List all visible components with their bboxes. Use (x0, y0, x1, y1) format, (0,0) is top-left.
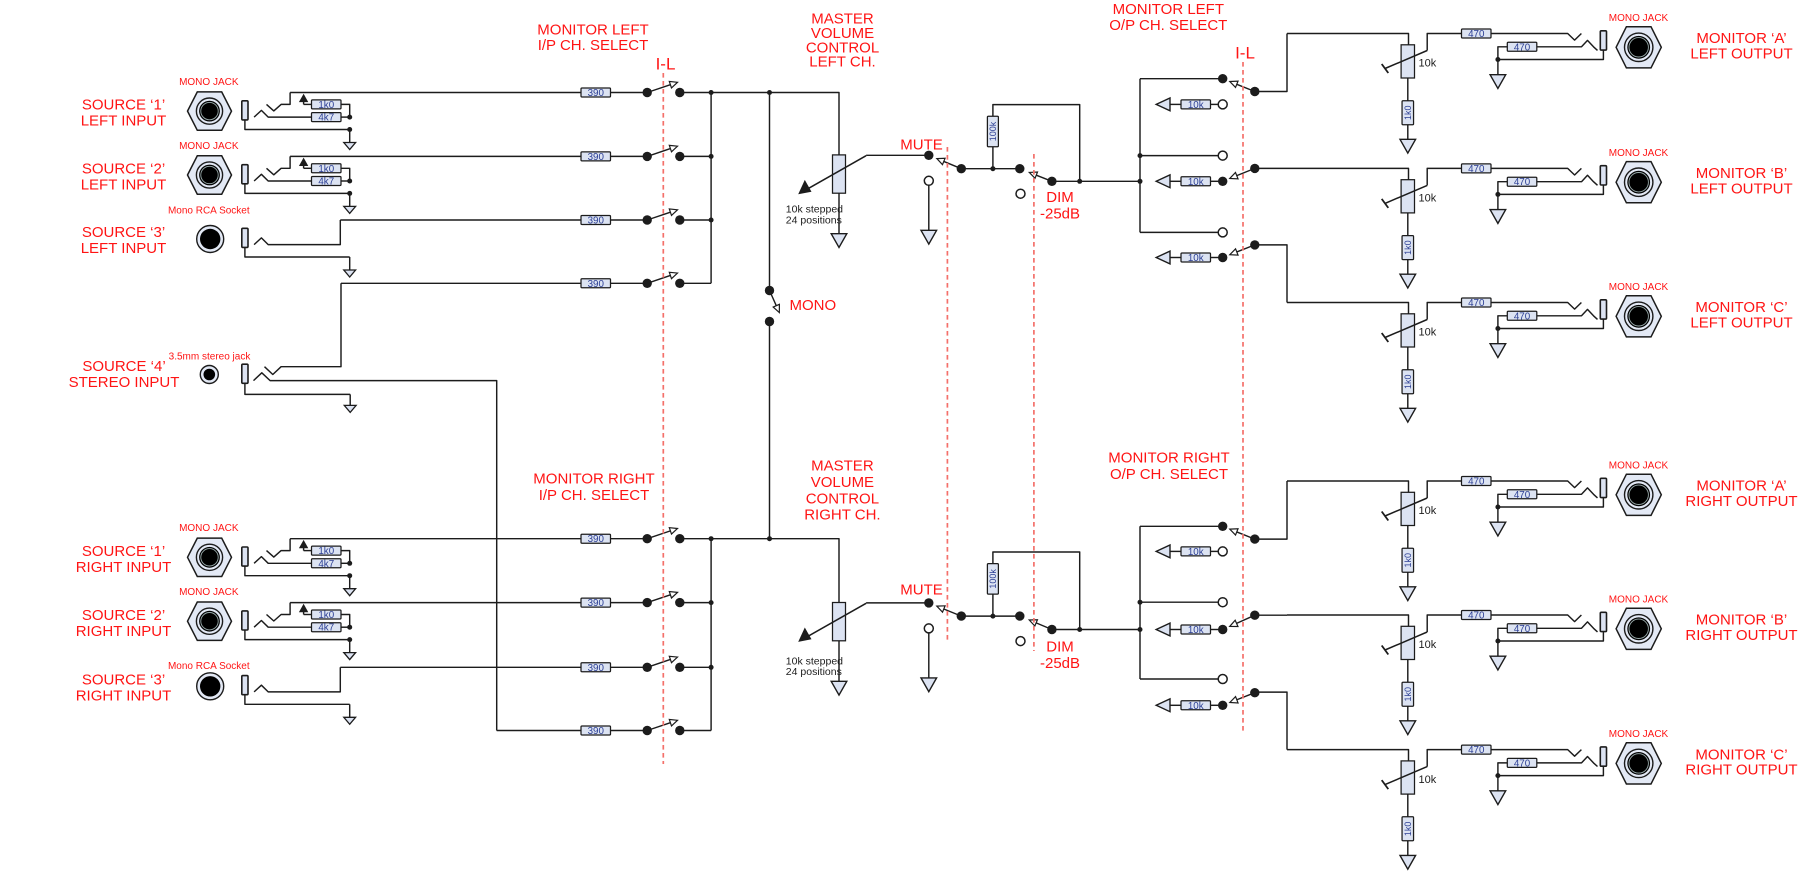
mute switch open contact (924, 624, 933, 633)
wire 470 to jack tip (1491, 750, 1581, 757)
resistor 470 shunt C (1507, 311, 1537, 322)
wire switch to bus (680, 730, 711, 732)
resistor 470 series C (1462, 745, 1492, 756)
node junction sleeve 2 right (347, 637, 352, 642)
resistor 10k monitor C (1181, 253, 1211, 264)
svg-text:MONITOR RIGHT: MONITOR RIGHT (533, 471, 654, 488)
svg-text:MONITOR RIGHT: MONITOR RIGHT (1108, 450, 1229, 467)
mono jack socket 1 left (188, 92, 232, 130)
wire monitor A right pole to network (1255, 481, 1287, 539)
node bus right row1 (709, 536, 714, 541)
resistor 1k0 2 left (312, 164, 342, 175)
rca socket 3 left (197, 226, 224, 253)
monitor C switch lever (1230, 245, 1255, 255)
wire switch to bus (680, 219, 711, 221)
svg-text:SOURCE ‘1’: SOURCE ‘1’ (82, 97, 165, 114)
monitor C switch 10k contact (1218, 253, 1227, 262)
switch contact out source 4 right (675, 726, 684, 735)
svg-text:LEFT OUTPUT: LEFT OUTPUT (1690, 46, 1792, 63)
wire trimmer wiper tap (1427, 615, 1461, 632)
node 100k bottom (990, 166, 995, 171)
svg-text:1k0: 1k0 (318, 100, 334, 111)
net arrow monitor A 10k (1156, 545, 1170, 558)
wire (1170, 550, 1181, 552)
svg-text:10k: 10k (1419, 193, 1437, 205)
svg-text:1k0: 1k0 (318, 610, 334, 621)
jack sleeve contact 1 right (242, 547, 248, 566)
arrow tap to signal line 2 right (299, 604, 308, 615)
resistor 390 source 4 right (581, 726, 611, 737)
svg-text:470: 470 (1468, 477, 1485, 488)
ground 1 left (344, 130, 356, 150)
svg-text:10k: 10k (1188, 100, 1204, 111)
wire trimmer to 1k0 (1407, 213, 1409, 236)
switch contact source 1 left (643, 88, 652, 97)
node bus in (1138, 627, 1143, 632)
svg-text:24 positions: 24 positions (786, 215, 842, 227)
wire (611, 155, 648, 157)
svg-text:390: 390 (588, 534, 605, 545)
switch lever source 2 right (647, 592, 677, 603)
switch lever source 4 left (647, 272, 677, 283)
svg-text:MASTER: MASTER (811, 458, 874, 475)
resistor 1k0 monitor C (1402, 817, 1414, 841)
switch contact source 3 right (643, 663, 652, 672)
monitor A pole (1250, 87, 1259, 96)
node bus b (1138, 600, 1143, 605)
node ground junction B (1495, 192, 1500, 197)
svg-text:470: 470 (1514, 177, 1531, 188)
svg-text:10k: 10k (1188, 547, 1204, 558)
wire sleeve to ground (1498, 766, 1604, 775)
wire into trimmer (1287, 303, 1409, 314)
svg-text:470: 470 (1514, 624, 1531, 635)
mono switch contact upper (765, 286, 774, 295)
dim switch lever (1029, 172, 1052, 181)
wire trimmer to 1k0 (1407, 526, 1409, 549)
svg-text:10k: 10k (1188, 177, 1204, 188)
wire source 1 right to select resistor (290, 538, 581, 540)
svg-text:SOURCE ‘1’: SOURCE ‘1’ (82, 543, 165, 560)
ground mute (921, 185, 937, 244)
svg-text:MONO JACK: MONO JACK (179, 587, 239, 598)
wire (1170, 704, 1181, 706)
svg-text:I-L: I-L (656, 55, 676, 74)
output jack sleeve contact C (1600, 300, 1606, 319)
wire source 1 left to select resistor (290, 92, 581, 94)
node mono tap right (767, 536, 772, 541)
svg-text:SOURCE ‘2’: SOURCE ‘2’ (82, 607, 165, 624)
output jack socket monitor C (1616, 743, 1661, 784)
node junction sleeve 1 left (347, 127, 352, 132)
switch lever source 3 left (647, 209, 677, 220)
svg-text:390: 390 (588, 152, 605, 163)
output jack socket monitor B (1616, 162, 1661, 203)
mute switch contact (924, 151, 933, 160)
ground 1 right (344, 576, 356, 596)
node bypass junction (1077, 179, 1082, 184)
wire bus to C contact (1140, 678, 1218, 680)
node bypass junction (1077, 627, 1082, 632)
svg-text:-25dB: -25dB (1040, 655, 1080, 672)
monitor A switch open contact (1218, 547, 1227, 556)
wire trimmer to 1k0 (1407, 347, 1409, 370)
trimmer 10k monitor B (1382, 180, 1428, 213)
resistor 1k0 monitor B (1402, 682, 1414, 706)
wire jack sleeve to ground 2 right (245, 630, 350, 640)
svg-text:470: 470 (1514, 490, 1531, 501)
svg-text:Mono RCA Socket: Mono RCA Socket (168, 661, 250, 672)
wire (611, 602, 648, 604)
wire dim to output bus (1052, 180, 1140, 182)
svg-text:10k: 10k (1188, 701, 1204, 712)
ground output B (1490, 641, 1506, 670)
wire monitor B right pole to network (1255, 614, 1287, 616)
svg-text:RIGHT OUTPUT: RIGHT OUTPUT (1685, 493, 1797, 510)
mute switch lever (937, 606, 961, 616)
mono jack socket 1 right (188, 538, 232, 576)
node bus left row3 (709, 218, 714, 223)
svg-text:MONITOR LEFT: MONITOR LEFT (1113, 1, 1224, 18)
wire into trimmer (1287, 615, 1409, 626)
wire switch to bus (680, 666, 711, 668)
svg-text:DIM: DIM (1046, 639, 1074, 656)
resistor 1k0 2 right (312, 610, 342, 621)
arrow tap to signal line 2 left (299, 158, 308, 169)
wire trimmer wiper tap (1427, 303, 1461, 320)
wire (1170, 257, 1181, 259)
wire source 3 right to select resistor (340, 666, 581, 668)
switch lever source 2 left (647, 145, 677, 156)
mono switch lever (770, 291, 780, 313)
resistor 470 series B (1462, 164, 1492, 175)
svg-text:10k: 10k (1419, 639, 1437, 651)
resistor 4k7 1 right (312, 559, 342, 570)
svg-text:MONO JACK: MONO JACK (1609, 148, 1669, 159)
resistor 470 shunt A (1507, 42, 1537, 53)
dim switch contact (1015, 164, 1024, 173)
svg-text:LEFT INPUT: LEFT INPUT (81, 113, 167, 130)
wire (1170, 180, 1181, 182)
svg-text:470: 470 (1468, 29, 1485, 40)
monitor C switch lever (1230, 693, 1255, 703)
svg-text:I/P CH. SELECT: I/P CH. SELECT (538, 37, 649, 54)
svg-text:O/P CH. SELECT: O/P CH. SELECT (1109, 17, 1227, 34)
wire 1k0 to junction (341, 104, 350, 117)
rca sleeve contact 3 right (242, 676, 248, 695)
wire switch to bus (680, 155, 711, 157)
monitor B switch 10k contact (1218, 625, 1227, 634)
ground 1k0 B (1400, 260, 1416, 288)
resistor 390 source 3 left (581, 216, 611, 227)
ground 1k0 C (1400, 841, 1416, 869)
wire (304, 614, 312, 616)
svg-text:470: 470 (1468, 164, 1485, 175)
resistor 10k monitor A (1181, 547, 1211, 558)
monitor B switch lever (1230, 615, 1255, 626)
jack normalling contact 1 right (267, 539, 291, 557)
node bus in (1138, 179, 1143, 184)
dim pole contact (1047, 177, 1056, 186)
output jack sleeve contact B (1600, 612, 1606, 631)
svg-text:MONO JACK: MONO JACK (179, 77, 239, 88)
wire 470 to jack tip (1491, 615, 1581, 622)
wire (304, 103, 312, 105)
wire trimmer to 1k0 (1407, 794, 1409, 817)
wire dim bypass (993, 552, 1080, 630)
svg-text:470: 470 (1514, 311, 1531, 322)
resistor 10k monitor B (1181, 177, 1211, 188)
wire monitor C pole to network (1255, 245, 1287, 303)
node bus b (1138, 153, 1143, 158)
svg-text:MONO JACK: MONO JACK (1609, 461, 1669, 472)
wire source 4 right to select resistor (497, 730, 581, 732)
svg-text:10k: 10k (1188, 253, 1204, 264)
resistor 470 shunt C (1507, 758, 1537, 769)
wire monitor B pole to network (1255, 167, 1287, 169)
mono switch contact lower (765, 317, 774, 326)
resistor 10k monitor A (1181, 100, 1211, 111)
svg-text:1k0: 1k0 (1403, 105, 1413, 120)
resistor 1k0 monitor A (1402, 101, 1414, 125)
wire 470 shunt left (1498, 47, 1507, 60)
wire into trimmer (1287, 34, 1409, 45)
wire 4k7 to junction (341, 626, 350, 628)
monitor C switch open contact (1218, 228, 1227, 237)
dim switch open contact (1016, 637, 1025, 646)
svg-text:1k0: 1k0 (1403, 822, 1413, 837)
wire 470 shunt left (1498, 494, 1507, 507)
wire bus to C contact (1140, 231, 1218, 233)
ground output B (1490, 194, 1506, 223)
net arrow monitor C 10k (1156, 251, 1170, 264)
svg-text:DIM: DIM (1046, 189, 1074, 206)
wire bus to B contact (1140, 601, 1218, 603)
wire 470 shunt left (1498, 316, 1507, 329)
wire sleeve to ground (1498, 50, 1604, 59)
monitor A switch lever (1230, 529, 1255, 539)
svg-text:RIGHT CH.: RIGHT CH. (804, 507, 880, 524)
dim switch open contact (1016, 189, 1025, 198)
svg-text:MUTE: MUTE (900, 137, 943, 154)
node ground junction A (1495, 57, 1500, 62)
wire bus to B contact (1140, 155, 1218, 157)
wire 4k7 to junction (341, 562, 350, 564)
switch lever source 1 left (647, 81, 677, 92)
wire 4k7 to junction (341, 116, 350, 118)
svg-text:I/P CH. SELECT: I/P CH. SELECT (539, 487, 650, 504)
wire switch to bus (680, 282, 711, 284)
wire trimmer to 1k0 (1407, 660, 1409, 683)
wire 470 shunt to ring contact (1537, 309, 1598, 319)
resistor 390 source 2 right (581, 598, 611, 609)
svg-text:-25dB: -25dB (1040, 206, 1080, 223)
wire (1170, 103, 1181, 105)
resistor 470 series A (1462, 477, 1492, 488)
panel separator I-L right (1242, 62, 1244, 731)
node bus right row2 (709, 600, 714, 605)
wire output select bus (1139, 526, 1141, 679)
wire source 4 left to select resistor (341, 282, 581, 284)
svg-text:4k7: 4k7 (318, 559, 334, 570)
monitor B switch open contact (1218, 151, 1227, 160)
jack normalling contact 1 left (267, 93, 291, 111)
wire sleeve to ground (1498, 632, 1604, 641)
wire 470 shunt to ring contact (1537, 488, 1598, 498)
mute switch lever (937, 158, 961, 168)
volume pot 10k stepped (left) (798, 155, 866, 194)
resistor 4k7 2 right (312, 623, 342, 634)
panel separator dim (1033, 154, 1035, 651)
ground output C (1490, 329, 1506, 358)
wire switch to bus (680, 538, 711, 540)
svg-text:1k0: 1k0 (318, 164, 334, 175)
svg-text:RIGHT INPUT: RIGHT INPUT (76, 623, 172, 640)
wire (1211, 103, 1219, 105)
svg-text:LEFT INPUT: LEFT INPUT (81, 240, 167, 257)
wire stereo sleeve to ground (245, 383, 350, 394)
resistor 470 series B (1462, 611, 1492, 622)
wire mono riser lower (769, 322, 771, 539)
monitor C switch 10k contact (1218, 701, 1227, 710)
dim switch contact (1015, 611, 1024, 620)
ground output A (1490, 60, 1506, 89)
stereo jack right channel contact (254, 373, 497, 731)
output jack sleeve contact C (1600, 747, 1606, 766)
wire trimmer wiper tap (1427, 168, 1461, 185)
wire mute to dim (961, 168, 1020, 170)
output jack sleeve contact B (1600, 166, 1606, 185)
node ground junction C (1495, 773, 1500, 778)
ground mute (921, 633, 937, 692)
wire 470 to jack tip (1491, 34, 1581, 41)
jack tip contact 1 left (254, 110, 311, 117)
node bus left row1 (709, 90, 714, 95)
svg-text:4k7: 4k7 (318, 177, 334, 188)
net arrow monitor A 10k (1156, 98, 1170, 111)
svg-text:VOLUME: VOLUME (811, 474, 874, 491)
panel separator mute (946, 147, 948, 641)
wire trimmer wiper tap (1427, 481, 1461, 498)
trimmer 10k monitor C (1382, 314, 1428, 347)
wire (304, 550, 312, 552)
resistor 1k0 monitor C (1402, 370, 1414, 394)
wire input select bus left (710, 93, 712, 284)
svg-text:10k: 10k (1188, 625, 1204, 636)
net arrow monitor C 10k (1156, 699, 1170, 712)
resistor 1k0 1 right (312, 546, 342, 557)
svg-text:1k0: 1k0 (1403, 240, 1413, 255)
wire (1211, 257, 1223, 259)
svg-text:RIGHT INPUT: RIGHT INPUT (76, 559, 172, 576)
volume pot 10k stepped (right) (798, 603, 866, 642)
svg-text:SOURCE ‘3’: SOURCE ‘3’ (82, 672, 165, 689)
ground 2 right (344, 640, 356, 660)
wire 470 to jack tip (1491, 481, 1581, 488)
wire switch to bus (680, 92, 711, 94)
dim pole contact (1047, 625, 1056, 634)
monitor A switch open contact (1218, 100, 1227, 109)
monitor C switch open contact (1218, 675, 1227, 684)
mute switch contact (924, 598, 933, 607)
wire pot wiper to mute (866, 602, 929, 604)
svg-text:MONO JACK: MONO JACK (1609, 595, 1669, 606)
node ground junction B (1495, 639, 1500, 644)
mute pole contact (957, 164, 966, 173)
wire into trimmer (1287, 750, 1409, 761)
svg-text:390: 390 (588, 663, 605, 674)
arrow tap to signal line 1 right (299, 540, 308, 551)
resistor 100k dim (987, 564, 998, 595)
wire jack sleeve to ground 1 left (245, 120, 350, 130)
ground volume pot (831, 641, 847, 695)
monitor A pole (1250, 534, 1259, 543)
stereo jack left channel contact (265, 283, 342, 374)
wire sleeve to ground (1498, 185, 1604, 194)
jack normalling contact 2 left (267, 156, 291, 174)
wire trimmer wiper tap (1427, 750, 1461, 767)
svg-text:MONO JACK: MONO JACK (1609, 282, 1669, 293)
resistor 390 source 4 left (581, 279, 611, 290)
trimmer 10k monitor A (1382, 492, 1428, 525)
svg-text:470: 470 (1468, 298, 1485, 309)
3.5mm stereo jack socket (200, 366, 218, 384)
monitor B pole (1250, 611, 1259, 620)
switch contact out source 2 left (675, 152, 684, 161)
switch contact out source 3 right (675, 663, 684, 672)
jack normalling contact 2 right (267, 603, 291, 621)
wire (1211, 180, 1223, 182)
wire input select bus right (710, 539, 712, 731)
switch contact out source 4 left (675, 279, 684, 288)
wire (611, 219, 648, 221)
resistor 390 source 2 left (581, 152, 611, 163)
switch contact out source 1 left (675, 88, 684, 97)
svg-text:Mono RCA Socket: Mono RCA Socket (168, 205, 250, 216)
wire (611, 666, 648, 668)
output jack socket monitor A (1616, 474, 1661, 515)
svg-text:MONITOR LEFT: MONITOR LEFT (537, 22, 648, 39)
ground 1k0 A (1400, 572, 1416, 600)
arrow tap to signal line 1 left (299, 94, 308, 105)
wire 4k7 to junction (341, 180, 350, 182)
svg-text:100k: 100k (988, 569, 998, 589)
svg-text:10k: 10k (1419, 774, 1437, 786)
resistor 10k monitor C (1181, 701, 1211, 712)
wire dim bypass (993, 105, 1080, 182)
output jack socket monitor C (1616, 296, 1661, 337)
node junction 1 right (347, 561, 352, 566)
switch contact source 4 left (643, 279, 652, 288)
resistor 470 shunt B (1507, 177, 1537, 188)
wire left ch to volume pot (711, 93, 839, 156)
svg-text:1k0: 1k0 (1403, 687, 1413, 702)
wire source 2 left to select resistor (290, 155, 581, 157)
mute pole contact (957, 611, 966, 620)
node bus left row2 (709, 154, 714, 159)
wire (611, 538, 648, 540)
node 100k bottom (990, 614, 995, 619)
wire 1k0 to junction (341, 168, 350, 181)
node junction 2 left (347, 179, 352, 184)
svg-text:24 positions: 24 positions (786, 666, 842, 678)
svg-text:O/P CH. SELECT: O/P CH. SELECT (1110, 466, 1228, 483)
svg-text:RIGHT INPUT: RIGHT INPUT (76, 688, 172, 705)
wire 100k to node (992, 594, 994, 616)
svg-text:MONO JACK: MONO JACK (1609, 13, 1669, 24)
svg-text:LEFT OUTPUT: LEFT OUTPUT (1690, 315, 1792, 332)
wire bus to A contact (1140, 525, 1223, 527)
